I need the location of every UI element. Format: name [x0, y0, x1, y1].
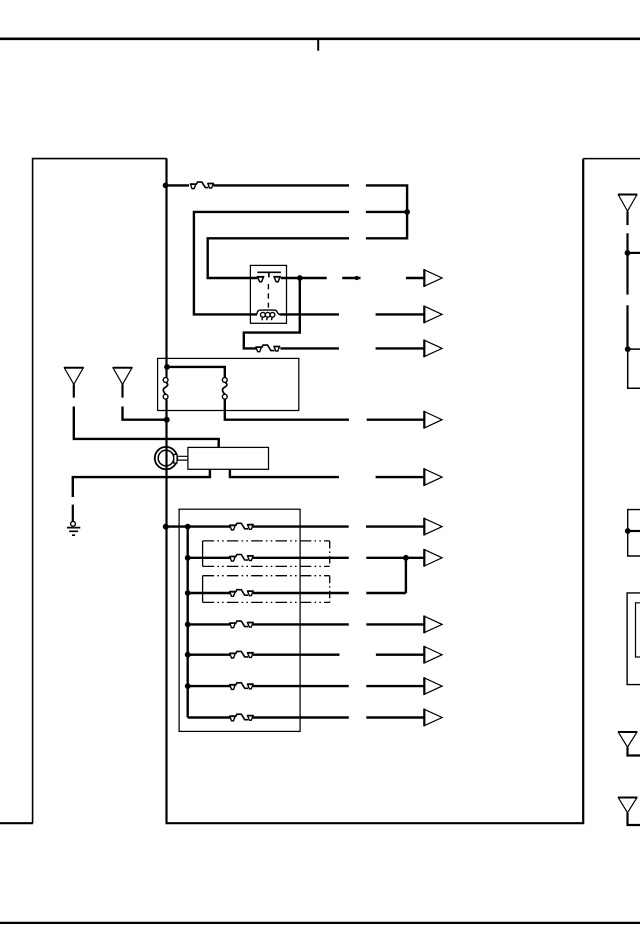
node J5: [164, 417, 170, 423]
switch box S1: [158, 358, 299, 410]
fuse F3: [229, 523, 253, 530]
wire housing left pin: [209, 469, 211, 477]
component box RA: [628, 349, 640, 388]
fuse F5: [229, 590, 253, 597]
connector triangle T1: [64, 368, 83, 384]
wire row5 right: [253, 654, 340, 656]
component box RC outer: [627, 593, 640, 685]
wire housing right pin to row E: [230, 469, 339, 477]
wire 2 to coil: [366, 211, 407, 213]
wire staircase to relay contact: [208, 238, 349, 278]
wire row5 left: [188, 654, 231, 656]
fuse F8: [229, 683, 253, 690]
wire row1 left: [166, 525, 230, 527]
node J10: [625, 528, 631, 534]
relay dashed link: [267, 284, 269, 308]
wire row3 left: [188, 592, 231, 594]
component box RC inner: [636, 603, 640, 657]
node bus row6: [185, 683, 191, 689]
wire row1 right: [253, 525, 349, 527]
fuse F4: [229, 555, 253, 562]
wire switch2 down to row D: [225, 399, 349, 420]
wire row7 left: [188, 716, 231, 718]
node J9: [625, 346, 631, 352]
connector arrow A5: [424, 469, 442, 485]
dash-dot shield box 2: [203, 576, 330, 603]
connector arrow A8: [424, 616, 442, 632]
wire from J3 down to fuse 2: [244, 278, 300, 348]
wire row7 right: [253, 716, 349, 718]
connector arrow A9: [424, 647, 442, 663]
dash-dot shield box 1: [203, 541, 330, 567]
wire fuse bus: [186, 527, 188, 718]
wire branch right top: [628, 252, 640, 254]
mechanical link double line: [177, 456, 188, 460]
wire staircase right: [366, 185, 407, 238]
wire lead arrow 6: [366, 525, 424, 527]
connector arrow A11: [424, 709, 442, 725]
wire lead arrow 2: [376, 313, 424, 315]
wire dash-dot segment: [342, 277, 360, 279]
component box left (junction block): [33, 159, 167, 823]
fuse F1: [190, 182, 214, 189]
wire ground lower seg: [72, 505, 74, 522]
wire coil out: [280, 313, 339, 315]
connector triangle T2: [113, 368, 132, 384]
cigarette lighter L1 outer: [155, 447, 177, 469]
node J1: [163, 183, 169, 189]
node bus row4: [185, 622, 191, 628]
fuse F7: [229, 651, 253, 658]
wire row2 lead: [366, 557, 423, 559]
node bus row5: [185, 652, 191, 658]
top border tick: [317, 40, 319, 51]
switch contact 1: [163, 378, 168, 400]
main outline upper segment: [165, 158, 167, 377]
wire row2-row3 link: [405, 558, 407, 593]
connector arrow A7: [424, 550, 442, 566]
bottom border line: [0, 922, 640, 924]
wire: [166, 184, 189, 186]
node J4: [164, 364, 170, 370]
lighter tab: [174, 454, 177, 463]
component box (lighter housing): [188, 447, 269, 469]
wire switch bar: [167, 367, 225, 378]
node J2: [404, 209, 410, 215]
relay U1 box: [250, 265, 286, 323]
wire lead arrow 3: [376, 347, 424, 349]
wire lead arrow 4: [367, 419, 424, 421]
wire staircase 1-3: [213, 184, 349, 186]
wire lead arrow 1: [406, 277, 424, 279]
ground G1: [67, 521, 80, 535]
node J7 row2: [403, 555, 409, 561]
wire row6 lead: [366, 685, 423, 687]
wire lead arrow 5: [376, 476, 424, 478]
connector arrow A2: [424, 306, 442, 322]
switch contact 2: [222, 378, 227, 400]
wire row5 lead: [376, 654, 424, 656]
wire row4 right: [253, 623, 349, 625]
node dash dot: [355, 276, 359, 280]
connector triangle TR2: [618, 732, 636, 747]
node bus row3: [185, 590, 191, 596]
connector triangle TR3: [618, 798, 636, 813]
node bus row1: [185, 524, 191, 530]
top border line: [0, 37, 640, 40]
node bus row2: [185, 555, 191, 561]
wire T2 to node J5: [123, 407, 165, 420]
wire T2 tail: [121, 384, 123, 397]
wire fuse2 out: [280, 347, 339, 349]
relay contact terminal right: [274, 277, 281, 282]
wire relay contact out: [281, 277, 327, 279]
relay contact bar: [257, 272, 281, 277]
fuse F9: [229, 714, 253, 721]
connector arrow A4: [424, 412, 442, 428]
wire row3 lead: [366, 592, 406, 594]
node J3: [297, 275, 303, 281]
connector arrow A10: [424, 678, 442, 694]
node J6: [163, 524, 169, 530]
wire row2 right: [253, 557, 349, 559]
wire T1 tail: [73, 384, 75, 397]
wire 2 to coil left part: [194, 212, 349, 315]
wire row4 lead: [366, 623, 423, 625]
connector arrow A6: [424, 518, 442, 534]
wire branch RB: [628, 530, 640, 532]
cigarette lighter L1 inner: [158, 450, 174, 466]
relay contact terminal left: [257, 277, 264, 282]
fuse box FB: [179, 509, 300, 731]
fuse F6: [229, 621, 253, 628]
wire row4 left: [188, 623, 231, 625]
node J8: [625, 250, 631, 256]
wire ground run: [73, 477, 211, 497]
connector triangle TR1: [618, 195, 636, 211]
wire row3 right: [253, 592, 349, 594]
wire TR3 tail: [628, 813, 640, 825]
component box RB: [628, 510, 640, 556]
main component outline (center box ring): [167, 159, 584, 824]
fuse F2: [256, 345, 281, 352]
wire row6 right: [253, 685, 349, 687]
wire T1 to component: [74, 407, 219, 448]
wire TR1 tail segs: [626, 211, 628, 349]
wire row7 lead: [366, 716, 423, 718]
connector arrow A1: [424, 270, 442, 286]
wire TR2 tail: [628, 747, 640, 755]
relay coil: [257, 310, 280, 320]
component box right top edge: [583, 158, 640, 160]
wire row2 left: [188, 557, 231, 559]
connector arrow A3: [424, 340, 442, 356]
bottom stub left: [0, 822, 33, 824]
wire row6 left: [188, 685, 231, 687]
